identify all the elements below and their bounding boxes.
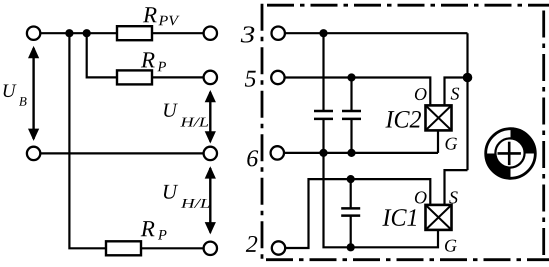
- terminal 2: [272, 241, 285, 254]
- label IC2 pin G: [445, 138, 457, 150]
- label U_H/L upper subscript: [180, 118, 208, 127]
- label R_P upper: [141, 52, 155, 67]
- label U_H/L lower subscript: [181, 199, 210, 208]
- op-amp IC2 box: [426, 105, 452, 130]
- terminal right of R_P upper: [204, 71, 217, 84]
- junction dot A: [65, 29, 73, 37]
- wire line 6 to IC2 G pin: [284, 152, 438, 154]
- terminal 5: [271, 71, 284, 84]
- wire bottom rail of left block: [40, 152, 203, 154]
- op-amp IC1 box: [426, 205, 452, 230]
- terminal 3: [272, 27, 285, 40]
- label pin 6: [247, 150, 258, 166]
- label U_B: [4, 84, 17, 97]
- wire terminal2 to IC1 O pin: [285, 179, 430, 248]
- junction J1: [319, 29, 327, 37]
- label R_P upper subscript: [157, 62, 166, 71]
- label IC2 pin S: [451, 88, 460, 100]
- label R_P lower: [141, 221, 155, 236]
- motor symbol outer: [486, 129, 536, 179]
- resistor R_PV: [117, 26, 152, 40]
- label IC1 pin O: [415, 191, 427, 203]
- junction J4: [319, 149, 327, 157]
- label IC1: [382, 209, 416, 226]
- capacitor C2 wires: [350, 78, 352, 153]
- motor plus horizontal: [498, 152, 521, 155]
- wire line 5 to IC2 O pin: [285, 78, 431, 106]
- terminal right middle row6: [204, 147, 217, 160]
- label IC2 pin O: [415, 88, 427, 100]
- capacitor C1 wires: [322, 33, 324, 153]
- junction J6: [347, 175, 355, 183]
- label R_PV subscript: [158, 16, 179, 26]
- motor quadrant NE: [511, 129, 536, 154]
- junction J2: [463, 73, 473, 83]
- label IC2: [385, 111, 421, 128]
- wire R_P to terminal: [152, 76, 204, 78]
- label U_H/L lower: [164, 185, 178, 199]
- junction dot B: [83, 29, 91, 37]
- terminal left bottom (supply -): [27, 147, 40, 160]
- wire right vertical from line3: [466, 33, 468, 170]
- terminal right of R_PV: [204, 27, 217, 40]
- wire top rail to R_PV: [40, 32, 117, 34]
- motor plus vertical: [508, 142, 511, 165]
- arrow U_B: [28, 46, 39, 141]
- capacitor C3 wires: [350, 179, 352, 247]
- capacitor C2: [342, 111, 361, 119]
- motor inner circle: [495, 138, 524, 167]
- junction J7: [347, 243, 355, 251]
- wire long branch from dot A to bottom resistor: [69, 33, 106, 248]
- wire IC1 S pin: [445, 170, 468, 205]
- wire line 3: [285, 32, 468, 34]
- label pin 2: [246, 236, 257, 252]
- label IC1 pin S: [449, 191, 458, 203]
- wire IC2 G vertical: [437, 130, 439, 153]
- terminal left top (supply +): [27, 27, 40, 40]
- wire G bus from J4 down to IC1 G: [324, 153, 439, 247]
- label R_PV: [143, 7, 157, 22]
- resistor R_P lower: [106, 241, 141, 255]
- resistor R_P upper: [117, 70, 152, 84]
- junction J3: [347, 73, 355, 81]
- label U_B subscript: [19, 97, 27, 106]
- wire branch down from dot B: [87, 33, 117, 77]
- wire R_PV to terminal: [152, 32, 204, 34]
- capacitor C3: [341, 208, 360, 215]
- motor quadrant SW: [486, 154, 511, 179]
- capacitor C1: [314, 111, 333, 119]
- label R_P lower subscript: [158, 230, 167, 239]
- arrow U_H/L upper: [205, 90, 216, 144]
- wire R_P lower to terminal: [141, 247, 204, 249]
- terminal right of R_P lower: [204, 242, 217, 255]
- junction J5: [347, 149, 355, 157]
- label pin 3: [241, 26, 255, 42]
- terminal 6: [271, 146, 284, 159]
- label U_H/L upper: [164, 104, 178, 117]
- label IC1 pin G: [445, 240, 457, 252]
- dash-dot border of control unit: [262, 4, 549, 262]
- wire IC2 S pin: [445, 78, 468, 106]
- label pin 5: [245, 71, 256, 87]
- arrow U_H/L lower: [205, 166, 216, 234]
